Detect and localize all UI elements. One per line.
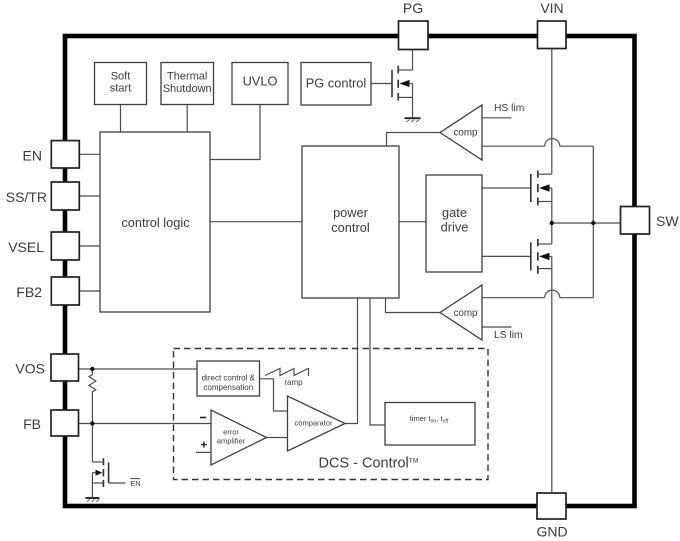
wire Q4 gate to EN label xyxy=(109,482,126,484)
svg-text:SS/TR: SS/TR xyxy=(6,189,47,205)
svg-text:PG control: PG control xyxy=(306,76,366,91)
LS current limit comparator xyxy=(440,285,482,340)
wire power control to gate drive xyxy=(399,221,426,223)
ground under Q4 xyxy=(85,498,99,502)
wire VOS pin to direct control block xyxy=(79,368,198,370)
svg-text:ramp: ramp xyxy=(284,378,303,387)
timer block xyxy=(385,403,475,446)
wire soft start to control logic xyxy=(120,105,122,133)
wire HS comp sense input with hop over VIN rail xyxy=(482,145,593,147)
svg-text:comparator: comparator xyxy=(295,419,333,428)
wire hop arc on LS sense line xyxy=(545,290,560,298)
svg-text:error: error xyxy=(223,428,239,437)
svg-text:FB: FB xyxy=(23,416,41,432)
wire thermal shutdown to control logic xyxy=(186,105,188,133)
svg-text:SW: SW xyxy=(656,213,679,229)
wire gate drive to Q2 gate xyxy=(482,187,531,189)
svg-text:UVLO: UVLO xyxy=(243,74,278,89)
HS current limit comparator xyxy=(440,105,482,160)
wire LS comp sense input with hop over GND rail xyxy=(482,297,593,299)
DCS-Control dashed boundary xyxy=(174,349,489,480)
wire Q3 source rail down to GND pin xyxy=(551,256,553,493)
svg-text:PG: PG xyxy=(403,0,423,16)
wire VSEL pin to control logic xyxy=(79,245,100,247)
pin VOS xyxy=(51,354,79,381)
wire EN pin to control logic xyxy=(79,153,100,155)
node SW junction on sense line xyxy=(591,221,595,225)
svg-text:Thermal: Thermal xyxy=(167,70,207,82)
svg-text:VIN: VIN xyxy=(540,0,563,16)
pin SW xyxy=(621,207,650,235)
wire direct control block to comparator (ramp input) xyxy=(260,379,288,411)
wire UVLO to control logic xyxy=(210,105,260,160)
ground under Q1 xyxy=(405,118,421,122)
resistor R1 between VOS and FB xyxy=(89,369,96,424)
control logic block xyxy=(100,132,210,312)
pin FB xyxy=(51,410,79,436)
EN label with overline at Q4 gate xyxy=(130,479,140,488)
pin SS/TR xyxy=(51,182,79,210)
node B junction FB/R1 xyxy=(90,421,94,425)
transistor Q3 low-side NMOS xyxy=(531,239,552,274)
wire control logic to power control xyxy=(210,221,302,223)
wire hop arc on HS sense line xyxy=(545,139,560,147)
wire LS comp output to power control xyxy=(386,298,441,313)
svg-text:HS lim: HS lim xyxy=(494,103,524,114)
ramp sawtooth waveform xyxy=(265,369,308,376)
svg-text:LS lim: LS lim xyxy=(494,330,523,341)
wire gate drive to Q3 gate xyxy=(482,255,531,257)
error amp minus sign xyxy=(200,417,206,419)
transistor Q4 FB discharge NMOS xyxy=(92,458,108,487)
svg-text:GND: GND xyxy=(536,524,567,540)
wire SW node to SW pin xyxy=(552,222,621,224)
svg-text:power: power xyxy=(333,205,369,220)
transistor Q1 PG open-drain NMOS xyxy=(392,66,413,101)
svg-text:start: start xyxy=(110,83,131,95)
wire HS lim input stub xyxy=(482,117,512,119)
pin VIN xyxy=(538,21,567,49)
wire FB2 pin to control logic xyxy=(79,290,100,292)
svg-text:amplifier: amplifier xyxy=(217,437,246,446)
svg-text:Soft: Soft xyxy=(111,70,131,82)
svg-text:VSEL: VSEL xyxy=(8,239,44,255)
power control block xyxy=(302,146,399,298)
wire Q1 source to ground xyxy=(412,97,414,118)
svg-text:control: control xyxy=(331,220,369,235)
svg-text:comp: comp xyxy=(454,308,479,319)
wire HS comp output to power control xyxy=(387,133,441,147)
wire PG pin to Q1 drain xyxy=(412,50,414,71)
wire Q4 source down to ground xyxy=(91,473,93,498)
svg-text:comp: comp xyxy=(454,128,479,139)
PG control block xyxy=(301,63,371,106)
svg-text:EN: EN xyxy=(23,147,42,163)
svg-text:DCS - ControlTM: DCS - ControlTM xyxy=(319,456,419,472)
svg-text:VOS: VOS xyxy=(15,361,45,377)
svg-text:control logic: control logic xyxy=(121,215,190,230)
error amp plus input stub xyxy=(196,451,211,453)
error amp plus sign xyxy=(201,442,207,448)
transistor Q2 high-side NMOS xyxy=(531,171,552,206)
svg-text:Shutdown: Shutdown xyxy=(163,83,212,95)
svg-text:compensation: compensation xyxy=(203,383,253,392)
wire power control to timer xyxy=(370,298,385,425)
thermal shutdown block xyxy=(161,63,214,105)
svg-text:EN: EN xyxy=(130,479,140,488)
node A junction VOS/R1 xyxy=(90,367,94,371)
wire PG control to Q1 gate xyxy=(371,83,392,85)
pin GND xyxy=(537,493,566,519)
chip outline border xyxy=(65,36,635,506)
wire FB pin to error amplifier xyxy=(79,423,212,425)
wire sense vertical to SW node xyxy=(592,146,594,298)
error amplifier U1 xyxy=(211,410,267,465)
wire FB node down to Q4 drain xyxy=(91,424,93,463)
soft start block xyxy=(95,63,147,105)
wire SS/TR pin to control logic xyxy=(79,195,100,197)
wire Q2 source rail to Q3 drain xyxy=(551,188,553,244)
wire VIN pin down to Q2 drain xyxy=(551,49,553,175)
pin VSEL xyxy=(51,232,79,260)
comparator U2 xyxy=(288,396,346,451)
wire error amplifier output to comparator xyxy=(267,437,288,439)
UVLO block xyxy=(232,63,288,105)
svg-text:FB2: FB2 xyxy=(16,284,42,300)
pin FB2 xyxy=(51,277,79,305)
svg-text:drive: drive xyxy=(441,220,469,235)
wire comparator output to power control xyxy=(345,298,358,424)
pin EN xyxy=(51,141,79,168)
gate drive block xyxy=(426,175,482,272)
pin PG xyxy=(399,21,429,50)
svg-text:direct control &: direct control & xyxy=(202,374,256,383)
direct control and compensation block xyxy=(197,361,260,396)
node SW junction on power rail xyxy=(550,221,554,225)
wire LS lim input stub xyxy=(482,326,512,328)
svg-text:gate: gate xyxy=(442,205,467,220)
